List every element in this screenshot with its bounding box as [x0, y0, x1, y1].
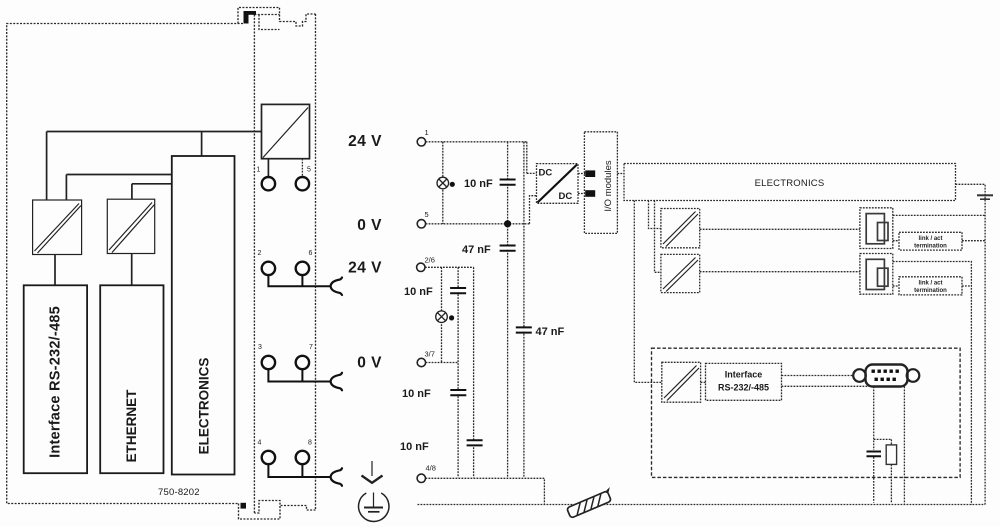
svg-text:10 nF: 10 nF	[400, 441, 429, 453]
svg-text:47 nF: 47 nF	[536, 326, 565, 338]
svg-text:link / act: link / act	[918, 236, 942, 242]
svg-text:DC: DC	[539, 168, 553, 179]
svg-text:1: 1	[425, 128, 429, 137]
svg-text:10 nF: 10 nF	[404, 286, 433, 298]
svg-text:47 nF: 47 nF	[462, 244, 491, 256]
svg-text:24 V: 24 V	[348, 133, 382, 150]
svg-text:termination: termination	[914, 288, 947, 294]
svg-text:7: 7	[309, 344, 313, 351]
svg-text:8: 8	[308, 440, 312, 447]
svg-text:24 V: 24 V	[348, 260, 382, 277]
svg-text:10 nF: 10 nF	[464, 178, 493, 190]
svg-text:10 nF: 10 nF	[402, 388, 431, 400]
svg-text:ELECTRONICS: ELECTRONICS	[755, 178, 825, 189]
svg-text:2/6: 2/6	[425, 256, 435, 265]
svg-text:RS-232/-485: RS-232/-485	[718, 383, 769, 393]
svg-text:2: 2	[258, 250, 262, 257]
svg-text:ETHERNET: ETHERNET	[124, 389, 139, 463]
svg-text:0 V: 0 V	[357, 355, 382, 372]
svg-text:ELECTRONICS: ELECTRONICS	[197, 358, 212, 455]
svg-text:Interface: Interface	[725, 370, 763, 380]
svg-text:0 V: 0 V	[357, 217, 382, 234]
svg-text:5: 5	[425, 210, 429, 219]
svg-text:750-8202: 750-8202	[158, 487, 200, 498]
svg-text:3/7: 3/7	[425, 350, 435, 359]
svg-text:4/8: 4/8	[426, 464, 436, 473]
svg-text:4: 4	[258, 440, 262, 447]
svg-text:I/O modules: I/O modules	[603, 160, 614, 211]
svg-text:3: 3	[258, 344, 262, 351]
svg-text:5: 5	[307, 167, 311, 174]
svg-text:link / act: link / act	[918, 281, 942, 287]
svg-text:termination: termination	[914, 243, 947, 249]
svg-text:Interface RS-232/-485: Interface RS-232/-485	[48, 306, 64, 458]
svg-text:1: 1	[257, 167, 261, 174]
svg-text:6: 6	[309, 250, 313, 257]
svg-text:DC: DC	[559, 191, 573, 202]
